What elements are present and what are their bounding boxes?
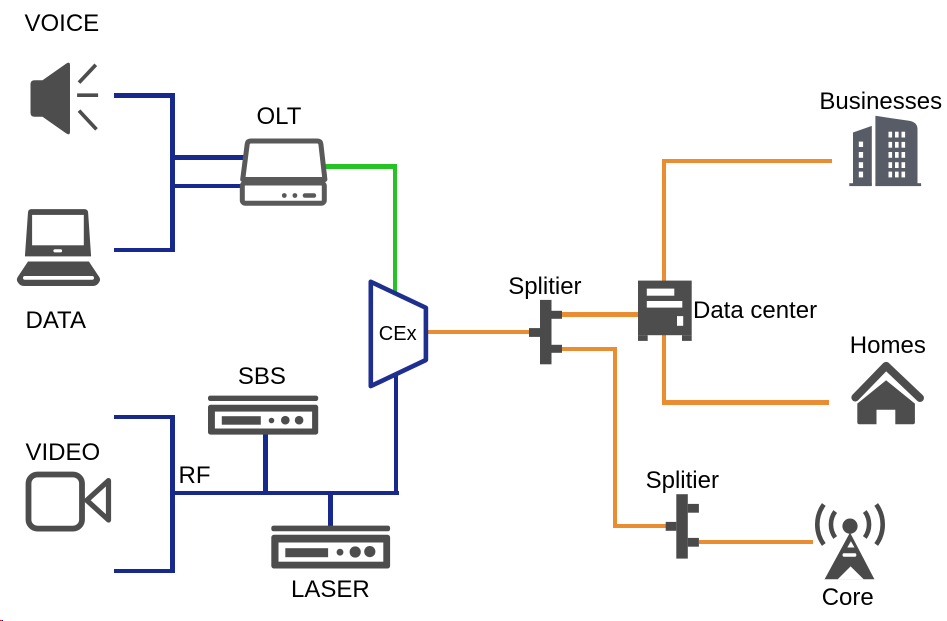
SBS box icon xyxy=(205,392,323,440)
wire data center top vertical xyxy=(662,159,666,282)
CEx label xyxy=(379,324,417,344)
label Data center xyxy=(693,299,817,323)
label Splitier 2 xyxy=(646,469,719,493)
label Core xyxy=(822,586,874,610)
homes icon xyxy=(845,355,930,430)
core antenna icon xyxy=(810,498,890,586)
label SBS xyxy=(238,365,286,389)
label OLT xyxy=(257,105,302,129)
wire mid vertical down xyxy=(613,347,617,529)
wire splitter1 bottom out xyxy=(562,347,618,351)
wire splitter2 to antenna xyxy=(699,540,813,544)
wire to businesses horizontal xyxy=(662,159,833,163)
label Homes xyxy=(850,334,926,358)
corner pixel artifact xyxy=(0,620,1,621)
wire CEx to splitter1 xyxy=(427,330,531,334)
data center icon xyxy=(634,276,696,346)
label VIDEO xyxy=(26,441,101,465)
splitter 1 icon xyxy=(526,297,566,367)
label VOICE xyxy=(25,12,100,36)
wire video bottom stub xyxy=(114,569,175,573)
wire CEx drop vertical xyxy=(394,374,398,496)
businesses icon xyxy=(845,110,927,190)
wire bus to OLT input 1 xyxy=(172,155,250,159)
wire video top stub xyxy=(114,415,175,419)
wire left vertical bus (voice/data) xyxy=(170,93,174,252)
wire green vertical to CEx xyxy=(393,164,397,294)
label Splitier 1 xyxy=(508,275,581,299)
laptop icon (DATA) xyxy=(15,205,110,290)
label Businesses xyxy=(819,90,942,114)
wire left vertical bus (video) xyxy=(170,415,174,573)
splitter 2 icon xyxy=(662,491,702,561)
wire to splitter2 xyxy=(613,524,667,528)
label RF xyxy=(179,464,211,488)
wire speaker to bus xyxy=(114,93,175,97)
VIDEO camera icon xyxy=(22,468,114,536)
wire RF bus horizontal xyxy=(172,491,399,495)
wire laptop to bus xyxy=(114,248,175,252)
wire bus to OLT input 2 xyxy=(172,184,243,188)
label DATA xyxy=(26,309,86,333)
LASER box icon xyxy=(268,522,394,572)
wire SBS drop vertical xyxy=(263,434,267,493)
wire splitter1 top to data center xyxy=(562,312,640,316)
speaker icon (VOICE) xyxy=(25,55,120,145)
wire data center bottom vertical xyxy=(662,335,666,405)
wire OLT to corner green horizontal xyxy=(322,164,397,168)
wire LASER drop vertical xyxy=(328,493,332,526)
wire to homes horizontal xyxy=(662,400,830,404)
OLT icon xyxy=(235,133,335,213)
CEx trapezoid xyxy=(363,276,429,392)
label LASER xyxy=(291,578,370,602)
